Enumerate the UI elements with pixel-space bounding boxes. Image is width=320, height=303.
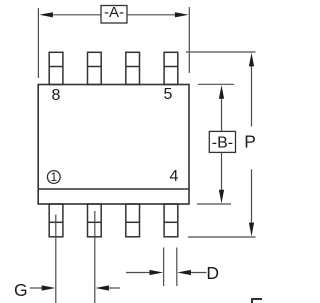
dimension B lower arrow [219,152,224,203]
svg-text:D: D [206,263,219,283]
pin 2 (bottom row) [88,204,102,237]
dimension P top extension line [186,51,256,53]
dimension B upper arrow [219,85,224,131]
pin 3 (bottom row) [126,204,140,237]
pin 1 index circle [47,170,60,184]
pin 7 (top row) [88,52,102,84]
dimension B label box [209,131,235,152]
dimension P upper arrow [249,53,254,127]
dimension B top extension line [198,83,234,85]
svg-text:1: 1 [50,170,57,184]
body bottom inner line [38,188,189,190]
dimension G right extension line (pin 2 centerline) [94,211,96,303]
dimension A right extension line [188,7,190,73]
svg-text:P: P [244,131,256,151]
svg-text:8: 8 [52,87,61,104]
dimension P bottom extension line [188,236,256,238]
dimension B bottom extension line [197,203,231,205]
dimension P lower arrow [249,169,254,236]
pin 1 (bottom row, leftmost) [49,204,63,237]
dimension A left arrow [39,12,101,17]
package body [38,85,189,205]
dimension G left extension line (pin 1 centerline) [55,215,57,303]
dimension G left arrow [30,285,56,290]
dimension A left extension line [37,8,39,78]
dimension A right arrow [127,12,189,17]
svg-text:-A-: -A- [104,4,124,21]
dimension D left arrow [126,270,163,275]
svg-text:4: 4 [170,168,179,185]
svg-text:-B-: -B- [212,135,233,152]
svg-text:5: 5 [164,86,173,103]
dimension A label box [101,4,127,23]
pin 4 (bottom row, rightmost) [164,204,178,237]
svg-text:G: G [14,280,28,300]
dimension G right arrow [95,285,120,290]
dimension D right extension line (pin 4 right edge) [176,248,178,287]
dimension D left extension line (pin 4 left edge) [163,248,165,287]
datum box corner (bottom-right, cut off) [252,299,262,303]
pin 6 (top row) [126,52,140,84]
pin 8 (top row, leftmost) [49,52,63,84]
pin 5 (top row, rightmost) [164,52,178,84]
dimension D right arrow [177,270,206,275]
